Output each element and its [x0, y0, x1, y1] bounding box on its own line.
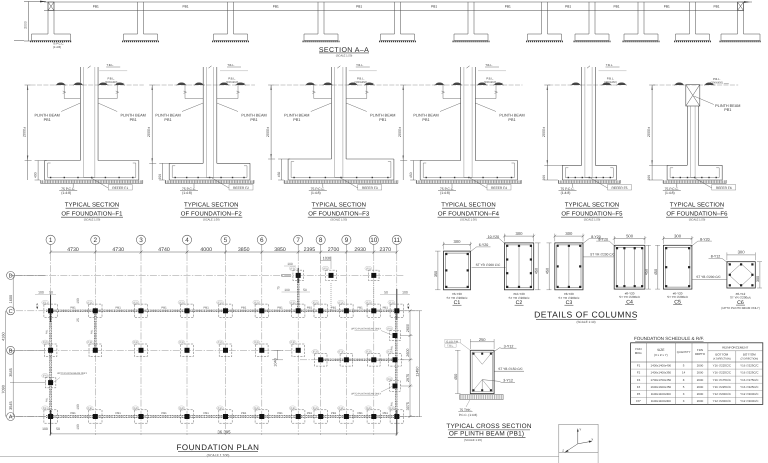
svg-text:Y12 ∅200C/C: Y12 ∅200C/C [740, 399, 758, 403]
svg-text:PB1: PB1 [505, 5, 511, 9]
foundation section F2: footing rebar with end hooks [172, 177, 247, 179]
svg-text:PB1: PB1 [70, 305, 76, 309]
column detail C3: stirrup [557, 245, 581, 288]
svg-text:D: D [9, 273, 13, 279]
plan grid centerline 3 [140, 254, 142, 435]
column detail C6: section outline [727, 262, 755, 288]
svg-text:PB1: PB1 [204, 305, 210, 309]
foundation section F2: REFER label [212, 178, 229, 188]
svg-text:2000: 2000 [24, 21, 28, 29]
svg-text:3: 3 [139, 237, 143, 244]
plan grid centerline row B-offset [300, 359, 404, 361]
column detail C3: middle tie [568, 245, 570, 288]
svg-text:(F3): (F3) [179, 341, 184, 344]
svg-text:P.B.L.: P.B.L. [357, 76, 365, 80]
svg-text:4740: 4740 [158, 247, 170, 253]
section A-A left height dimension 2000 [28, 2, 30, 42]
svg-text:(F2): (F2) [366, 301, 371, 304]
foundation section F6: column bars into footing [691, 177, 696, 179]
svg-text:PB1: PB1 [164, 118, 171, 122]
svg-text:PB1: PB1 [273, 5, 279, 9]
svg-text:2000: 2000 [697, 385, 704, 389]
plan footing grid 6 row B [256, 344, 269, 357]
svg-text:3850: 3850 [274, 247, 286, 253]
foundation section F2: footing outline [169, 162, 203, 164]
plan plinth beam stub left of grid7-D footing [282, 274, 292, 276]
svg-text:300: 300 [454, 239, 462, 244]
svg-text:2000: 2000 [697, 378, 704, 382]
plan footing grid 4 row C [180, 304, 193, 317]
section A-A ground hatch under footing 6 [453, 40, 490, 42]
column detail C6: bars label 8-Y12 [722, 258, 729, 263]
svg-text:(F5): (F5) [323, 267, 328, 270]
svg-text:DETAILS OF COLUMNS: DETAILS OF COLUMNS [534, 309, 638, 319]
svg-text:(SCALE 1:50): (SCALE 1:50) [584, 219, 601, 222]
svg-text:Z: Z [562, 448, 564, 452]
foundation section F1: plinth beam step right [116, 85, 118, 99]
svg-text:(300X450): (300X450) [105, 81, 118, 84]
svg-text:450: 450 [409, 172, 413, 178]
svg-text:F4: F4 [637, 385, 641, 389]
plan top dimension line [51, 251, 397, 253]
foundation section F6: footing outline [667, 164, 687, 166]
svg-text:(F3): (F3) [133, 341, 138, 344]
column detail C2: section outline [504, 243, 533, 290]
svg-text:2000: 2000 [697, 371, 704, 375]
svg-text:(F5): (F5) [366, 267, 371, 270]
svg-text:75 P.C.C.: 75 P.C.C. [440, 187, 454, 191]
svg-text:10: 10 [370, 237, 378, 244]
section A-A ground hatch under footing 11 [720, 40, 762, 42]
svg-text:(F4): (F4) [133, 407, 138, 410]
svg-text:PB1: PB1 [70, 411, 76, 415]
svg-text:100: 100 [284, 288, 290, 292]
column detail C5: section outline [663, 245, 692, 289]
plan footing grid 7 row D [293, 270, 304, 281]
foundation section F1: column shaft outer lines [79, 67, 81, 161]
svg-text:PB1: PB1 [383, 305, 389, 309]
svg-text:F1: F1 [637, 364, 641, 368]
svg-text:300: 300 [756, 276, 760, 282]
foundation section F1: column top cut mark [88, 66, 91, 68]
axis symbol: Y axis up [577, 430, 579, 444]
plan beam grid10 D to C [373, 283, 375, 311]
svg-text:DEPTH: DEPTH [695, 352, 705, 356]
plan footing grid 11 row A [390, 410, 403, 423]
foundation section F3: column rebar lines [334, 67, 336, 178]
plan grid bubble 1 [46, 235, 55, 244]
svg-text:PB1: PB1 [241, 305, 247, 309]
axis symbol box [559, 424, 598, 452]
section A-A column at grid 7 [541, 2, 543, 34]
plan footing grid 1 row B [44, 344, 57, 357]
svg-text:BOTTOM: BOTTOM [743, 352, 756, 356]
foundation section F1: vertical dimension 2000 at left [27, 85, 29, 180]
plan footing grid 7 row A [292, 410, 305, 423]
svg-text:2000: 2000 [697, 399, 704, 403]
plinth beam section PB1: top hanger lines [474, 354, 483, 365]
svg-text:3545: 3545 [9, 401, 13, 409]
svg-text:TYPICAL SECTION: TYPICAL SECTION [184, 202, 239, 209]
foundation section F4: leader to right PLINTH BEAM PB1 label [475, 103, 496, 112]
svg-text:ST YR ∅200 C/C: ST YR ∅200 C/C [476, 263, 501, 267]
column detail C1: bars label 6-Y20 [469, 247, 477, 253]
plinth beam section PB1: label 75 THK PCC [466, 400, 470, 407]
svg-text:1600x1600x450: 1600x1600x450 [651, 385, 672, 389]
svg-text:(F6): (F6) [43, 375, 48, 378]
svg-text:300: 300 [565, 231, 573, 236]
svg-text:PB1: PB1 [379, 118, 386, 122]
foundation section F2: column top cut mark [209, 66, 212, 68]
section A-A ground hatch under footing 5 [379, 40, 416, 42]
svg-text:PLINTH BEAM: PLINTH BEAM [121, 113, 146, 117]
svg-text:PB1: PB1 [422, 118, 429, 122]
column detail C3: height dimension 450 left [548, 243, 550, 290]
svg-text:1: 1 [49, 237, 53, 244]
svg-text:(F4): (F4) [366, 407, 371, 410]
svg-text:PB1: PB1 [241, 411, 247, 415]
svg-text:100: 100 [76, 298, 80, 304]
svg-text:100: 100 [402, 291, 408, 295]
svg-text:25: 25 [76, 318, 80, 322]
svg-text:2370: 2370 [380, 247, 392, 253]
svg-text:50: 50 [303, 288, 307, 292]
foundation section F2: vertical dimension 2000 at left [151, 85, 153, 180]
svg-text:PB1: PB1 [391, 401, 394, 406]
column detail C4: stirrup [616, 247, 643, 287]
plinth beam section PB1: label 3-Y12 bottom [482, 380, 500, 382]
svg-text:P.B.L.: P.B.L. [228, 76, 236, 80]
section A-A cut column box right grid 11 [738, 2, 744, 11]
column detail C1: rebar dots [445, 253, 447, 255]
svg-text:PB1: PB1 [130, 118, 137, 122]
svg-text:75 THK.: 75 THK. [459, 408, 471, 412]
svg-text:1040: 1040 [273, 358, 277, 366]
foundation section F5: column shaft outer lines [581, 67, 583, 165]
svg-text:75 P.C.C.: 75 P.C.C. [182, 187, 196, 191]
foundation section F3: plinth beam step left [313, 85, 315, 99]
foundation section F5: footing depth dimension 300 [544, 164, 564, 166]
section A-A column at grid 6 [467, 2, 469, 34]
svg-text:PLINTH BEAM: PLINTH BEAM [284, 113, 309, 117]
svg-text:(1:4:8): (1:4:8) [665, 191, 675, 195]
svg-text:(F6): (F6) [387, 327, 392, 330]
column detail C3: bars label 8-Y20 [581, 239, 589, 245]
svg-text:14: 14 [682, 371, 686, 375]
column detail C5: top width dimension 300 [663, 238, 692, 240]
svg-text:1100x1100x300: 1100x1100x300 [651, 399, 672, 403]
svg-text:100: 100 [287, 262, 293, 266]
svg-text:PB1: PB1 [565, 5, 571, 9]
svg-text:75 P.C.C.: 75 P.C.C. [560, 187, 574, 191]
foundation section F2: ground line [155, 84, 255, 86]
plan grid bubble 2 [91, 235, 100, 244]
svg-text:PB1: PB1 [431, 5, 437, 9]
svg-text:P.B.L.: P.B.L. [607, 76, 615, 80]
plan left dimension 7090 B-A [4, 350, 6, 416]
foundation section F6: footing depth dimension 300 [649, 164, 669, 166]
svg-text:PLINTH BEAM: PLINTH BEAM [499, 113, 524, 117]
plan dim 1040 offset row [277, 350, 279, 360]
plan plinth beam along offset row B1 [318, 358, 398, 360]
foundation section F2: PCC layer hatched [165, 180, 254, 183]
foundation section F1: ground line [31, 84, 144, 86]
foundation section F4: ground line [406, 84, 522, 86]
foundation section F1: leader to left PLINTH BEAM PB1 label [61, 103, 80, 112]
svg-text:T.B.L.: T.B.L. [227, 63, 235, 67]
svg-text:3-Y12: 3-Y12 [504, 345, 514, 349]
plan grid bubble 7 [294, 235, 303, 244]
svg-text:450: 450 [454, 374, 458, 380]
plan footing grid 10 row D [369, 270, 380, 281]
column detail C6: right height dimension 300 [759, 262, 761, 288]
svg-text:(F2): (F2) [133, 301, 138, 304]
svg-text:(F3): (F3) [290, 341, 295, 344]
svg-text:7: 7 [296, 237, 300, 244]
svg-text:PB1: PB1 [46, 329, 49, 334]
svg-text:SIZE: SIZE [657, 348, 665, 352]
svg-text:(1:4:8): (1:4:8) [53, 45, 61, 49]
svg-text:500: 500 [626, 233, 634, 238]
plan grid centerline row D [16, 274, 405, 276]
section A-A footing at grid 8 [575, 33, 589, 35]
section A-A column at grid 5 [394, 2, 396, 34]
plan leader UPTO PLINTH BEAM ONLY grid11 lower [381, 386, 393, 392]
foundation section F1: footing depth dimension [37, 161, 39, 181]
foundation section F4: footing outline [420, 160, 461, 162]
svg-text:100: 100 [76, 404, 80, 410]
svg-text:OF FOUNDATION–F4: OF FOUNDATION–F4 [438, 211, 500, 218]
foundation section F2: column shaft outer lines [202, 67, 204, 163]
foundation section F3: column shaft outer lines [331, 67, 333, 159]
column detail C4: section outline [614, 245, 645, 289]
svg-text:(F4): (F4) [87, 407, 92, 410]
plan grid bubble 3 [136, 235, 145, 244]
plan footing grid 2 row A [89, 410, 102, 423]
foundation section F1: ground hatch symbols [55, 83, 66, 85]
svg-text:ST YR ∅200c/c: ST YR ∅200c/c [619, 295, 641, 299]
svg-text:(F4): (F4) [339, 407, 344, 410]
svg-text:450: 450 [277, 172, 281, 178]
plan footing grid 9 row B-offset [340, 354, 353, 367]
plan footing grid 5 row A [219, 410, 232, 423]
plan grid centerline 9 [345, 254, 347, 435]
svg-text:PB1: PB1 [182, 5, 188, 9]
svg-text:4160: 4160 [1, 332, 5, 340]
foundation section F6: PCC layer hatched [663, 180, 726, 183]
foundation section F4: plinth beam step right [495, 85, 497, 99]
svg-text:(F3): (F3) [313, 351, 318, 354]
svg-text:2000±: 2000± [22, 127, 26, 137]
plan plinth beam along row C [46, 309, 400, 311]
plan left dimension 3545 B-mid [12, 350, 14, 416]
foundation section F1: footing outline [45, 160, 81, 162]
column detail C3: section outline [555, 243, 583, 290]
svg-text:3850: 3850 [238, 247, 250, 253]
column detail C3: top width dimension 300 [555, 235, 583, 237]
svg-text:350: 350 [158, 174, 162, 180]
foundation section F1: REFER label [91, 178, 108, 188]
plan footing grid 4 row B [181, 344, 194, 357]
foundation section F3: plinth beam step right [366, 85, 368, 99]
foundation section F4: REFER label [470, 178, 487, 188]
svg-text:ST YR ∅200 C/C: ST YR ∅200 C/C [590, 253, 615, 257]
section A-A cut column box left grid 1 [48, 2, 54, 11]
plinth beam section PB1: left height dimension 450 [457, 350, 459, 393]
section A-A footing at grid 10 [676, 33, 690, 35]
foundation section F3: footing outline [288, 158, 331, 160]
foundation section F4: vertical dimension 2000 at left [402, 85, 404, 180]
column detail C5: rebar dots [665, 247, 667, 249]
svg-text:PB1: PB1 [250, 118, 257, 122]
svg-text:T.B.L.: T.B.L. [107, 63, 115, 67]
svg-text:(F4): (F4) [290, 407, 295, 410]
foundation section F3: vertical dimension 2000 at left [270, 85, 272, 180]
svg-text:OF FOUNDATION–F6: OF FOUNDATION–F6 [666, 211, 728, 218]
svg-text:PB1: PB1 [331, 305, 337, 309]
foundation section F5: footing outline [562, 164, 581, 166]
svg-text:(300X450): (300X450) [226, 81, 239, 84]
title block border line [0, 455, 559, 457]
section A-A ground tick left [14, 40, 24, 42]
svg-text:100: 100 [76, 424, 80, 430]
foundation section F6: leader to PLINTH BEAM PB1 label [694, 96, 714, 105]
svg-text:UPTO PLINTH BEAM ONLY: UPTO PLINTH BEAM ONLY [57, 372, 88, 375]
svg-text:PB1: PB1 [357, 411, 363, 415]
svg-text:300: 300 [647, 175, 651, 181]
svg-text:OF FOUNDATION–F5: OF FOUNDATION–F5 [561, 211, 623, 218]
plinth beam section PB1: PCC layer [460, 395, 503, 399]
plan footing grid 3 row C [134, 304, 147, 317]
svg-text:3075: 3075 [406, 402, 410, 410]
svg-text:(F4): (F4) [254, 407, 259, 410]
svg-text:(F6): (F6) [387, 378, 392, 381]
svg-text:BOTTOM: BOTTOM [715, 352, 728, 356]
svg-text:OF FOUNDATION–F1: OF FOUNDATION–F1 [61, 211, 123, 218]
plan footing grid 9 row A [340, 410, 353, 423]
section A-A ground hatch under footing 4 [303, 40, 340, 42]
svg-text:4730: 4730 [67, 247, 79, 253]
svg-text:PLINTH BEAM: PLINTH BEAM [241, 113, 266, 117]
plan footing grid 8 row C [314, 304, 327, 317]
column detail C1: left height dimension 350 [437, 251, 439, 290]
column detail C4: top width dimension 300 [614, 238, 645, 240]
svg-text:6-Y20: 6-Y20 [479, 243, 489, 247]
plan grid centerline row A [16, 416, 420, 418]
plan grid bubble row D [7, 271, 15, 279]
svg-text:(1:4:8): (1:4:8) [182, 191, 192, 195]
foundation section F4: PCC layer hatched [416, 180, 521, 183]
plan grid bubble row A [7, 413, 15, 421]
svg-text:(300X450): (300X450) [711, 81, 724, 84]
section A-A footing at grid 2 [124, 33, 138, 35]
svg-text:P.B.L.: P.B.L. [107, 76, 115, 80]
svg-text:450: 450 [654, 269, 658, 275]
foundation section F1: plinth beam step left [63, 85, 65, 99]
plinth beam section PB1: top width dimension 250 [470, 341, 494, 343]
svg-text:P.B.L.: P.B.L. [486, 76, 494, 80]
svg-text:450: 450 [545, 268, 549, 274]
svg-text:2: 2 [94, 237, 98, 244]
plan grid centerline 2 [94, 254, 96, 435]
svg-text:(F3): (F3) [43, 341, 48, 344]
svg-text:(F2): (F2) [254, 301, 259, 304]
svg-text:(F2): (F2) [339, 301, 344, 304]
svg-text:7090: 7090 [1, 385, 5, 393]
section A-A footing at grid 9 [624, 33, 638, 35]
svg-text:5: 5 [224, 237, 228, 244]
svg-text:(300X450): (300X450) [355, 81, 368, 84]
column detail C2: rebar dots [506, 245, 508, 247]
svg-text:2700: 2700 [328, 247, 340, 253]
svg-text:PB1: PB1 [90, 329, 93, 334]
plan plinth beam along row A [46, 415, 400, 417]
svg-text:P.C.C. (1:4:8): P.C.C. (1:4:8) [459, 413, 478, 417]
svg-text:PB1: PB1 [44, 118, 51, 122]
plan plinth beam grid 7 D to C [296, 275, 298, 310]
svg-text:250: 250 [479, 337, 486, 342]
foundation section F5: column bars into footing [585, 177, 592, 179]
plan grid centerline 6 [261, 254, 263, 435]
svg-text:(F3): (F3) [254, 341, 259, 344]
svg-text:REINFORCEMENT: REINFORCEMENT [722, 345, 748, 349]
svg-text:PB1: PB1 [356, 5, 362, 9]
right end tick of section A-A [744, 1, 752, 3]
svg-text:REFER F1: REFER F1 [112, 186, 128, 190]
svg-text:TYPICAL SECTION: TYPICAL SECTION [65, 202, 120, 209]
column detail C1: stirrup [446, 253, 469, 288]
svg-text:TYPICAL CROSS SECTION: TYPICAL CROSS SECTION [446, 423, 531, 430]
plan footing grid 2 row B [89, 344, 102, 357]
column detail C2: stirrup [506, 245, 531, 288]
svg-text:4730: 4730 [112, 247, 124, 253]
svg-text:X: X [591, 437, 593, 441]
column detail C2: height dimension 450 [537, 243, 539, 290]
svg-text:3-Y12: 3-Y12 [503, 379, 513, 383]
foundation section F4: column shaft outer lines [460, 67, 462, 161]
svg-text:100: 100 [42, 427, 48, 431]
svg-text:ST YR ∅200c/c: ST YR ∅200c/c [508, 296, 530, 300]
foundation section F6: plinth beam cross box [686, 85, 700, 106]
foundation section F2: plinth beam step right [237, 85, 239, 99]
foundation section F4: plinth beam step left [442, 85, 444, 99]
svg-text:(1:4:8): (1:4:8) [561, 191, 571, 195]
svg-text:Y12 ∅200C/C: Y12 ∅200C/C [713, 399, 731, 403]
svg-text:T.B.L.: T.B.L. [606, 63, 614, 67]
svg-text:ST YR ∅200c/c: ST YR ∅200c/c [667, 295, 689, 299]
svg-text:50: 50 [384, 291, 388, 295]
column detail C1: top width dimension 300 [444, 243, 471, 245]
section A-A ground hatch under footing 9 [623, 40, 660, 42]
plan footing grid 9 row C [340, 304, 353, 317]
svg-text:(SCALE 1:50): (SCALE 1:50) [203, 219, 220, 222]
plan right overall dimension 11450 [419, 311, 421, 417]
plan grid centerline 5 [225, 254, 227, 435]
svg-text:PB1: PB1 [204, 411, 210, 415]
svg-text:(1:4:8): (1:4:8) [311, 191, 321, 195]
plan footing grid 8-offset row D [326, 270, 337, 281]
svg-text:Y: Y [579, 427, 581, 431]
svg-text:T.B.L.: T.B.L. [485, 63, 493, 67]
svg-text:(F4): (F4) [179, 407, 184, 410]
foundation section F3: column top cut mark [337, 66, 340, 68]
svg-text:(F1): (F1) [43, 407, 48, 410]
plan footing grid 11 row B-offset [389, 354, 402, 367]
svg-text:300: 300 [674, 233, 682, 238]
plan leader UPTO PLINTH BEAM ONLY grid1 intermediate [53, 378, 60, 383]
plan footing grid 11 row C [390, 304, 403, 317]
plan grid centerline 8 [320, 254, 322, 435]
